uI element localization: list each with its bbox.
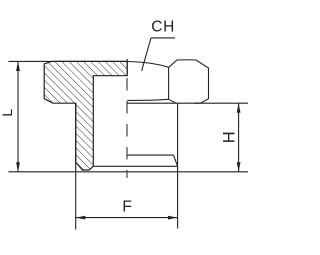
- F dimension left extension line: [75, 103, 77, 229]
- hex head facet boundary edge: [168, 67, 170, 99]
- dimension L top arrowhead: [16, 61, 20, 71]
- thread runout chamfer: [174, 155, 178, 166]
- dimension F left arrowhead: [76, 216, 86, 220]
- svg-text:CH: CH: [151, 19, 175, 36]
- plug body section (flange and threaded stem), hatched cut surface: [44, 61, 127, 170]
- dimension F line: [76, 217, 178, 219]
- hex bearing face line (H dimension upper extension): [127, 102, 248, 104]
- centerline (dashed axis): [126, 78, 128, 178]
- svg-text:H: H: [220, 131, 238, 143]
- hex head left facet bottom edge: [127, 99, 168, 100]
- svg-text:F: F: [122, 198, 132, 215]
- thread end line: [128, 154, 174, 156]
- svg-text:L: L: [0, 109, 15, 117]
- dimension F right arrowhead: [168, 216, 178, 220]
- hex head main facet bottom chamfer edge: [169, 99, 176, 103]
- bottom end line (L and H dimension lower extension): [8, 171, 248, 173]
- bore bottom line: [93, 165, 177, 167]
- dimension H line: [238, 103, 240, 172]
- top face line (L dimension upper extension): [8, 60, 127, 62]
- hex head main facet outline with chamfer bevels: [169, 60, 209, 104]
- section/hex boundary edge: [126, 59, 128, 76]
- CH leader line to hex facet: [142, 38, 151, 71]
- hex head left facet top edge: [127, 62, 168, 68]
- F dimension right extension line: [177, 103, 179, 228]
- dimension L line: [17, 61, 19, 171]
- CH label underline: [151, 37, 175, 39]
- dimension H top arrowhead: [237, 103, 241, 113]
- dimension L bottom arrowhead: [16, 162, 20, 172]
- dimension H bottom arrowhead: [237, 162, 241, 172]
